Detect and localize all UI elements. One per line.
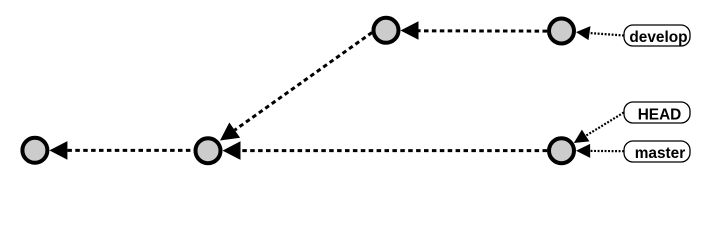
commit node topright — [549, 19, 574, 44]
edge topleft->bottommid diagonal (dashed) — [220, 33, 372, 141]
commit node bottomleft — [22, 138, 47, 163]
svg-text:develop: develop — [629, 29, 687, 46]
commit node topleft — [374, 18, 399, 43]
edge master->bottomright (dotted) — [576, 144, 624, 158]
edge bottomright->bottommid (dashed) — [223, 141, 548, 160]
commit node bottomright — [549, 138, 574, 163]
edge topright->topleft (dashed) — [401, 21, 548, 40]
branch label HEAD — [624, 102, 690, 123]
svg-text:master: master — [635, 145, 685, 162]
edge develop->commit (dotted) — [576, 26, 624, 40]
svg-text:HEAD: HEAD — [638, 106, 682, 123]
edge HEAD->bottomright (dotted) — [574, 113, 624, 144]
commit node bottommid — [196, 138, 221, 163]
branch label master — [624, 141, 690, 162]
edge bottommid->bottomleft (dashed) — [49, 141, 193, 160]
branch label develop — [624, 25, 690, 46]
